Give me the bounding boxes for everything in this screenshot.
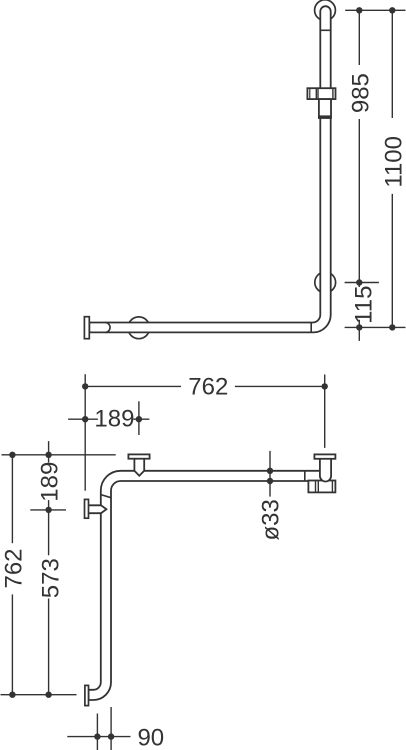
dim line 189v lower / 573 upper bbox=[48, 500, 50, 555]
tick at 985 bottom bbox=[345, 282, 379, 284]
dot dia33 top bbox=[267, 468, 273, 474]
svg-text:189: 189 bbox=[94, 406, 134, 433]
dot 90 right bbox=[108, 733, 114, 739]
dim line 115 lower bbox=[358, 320, 360, 328]
dim line 115 upper bbox=[358, 283, 360, 288]
diagonal seam below plan corner bbox=[101, 495, 111, 498]
L-shaped tube outline (front view) bbox=[89, 6, 330, 332]
svg-text:762: 762 bbox=[188, 373, 228, 400]
dim line 573 lower bbox=[48, 599, 50, 695]
top rosette circle bbox=[315, 0, 336, 21]
seam on horizontal tube near corner bbox=[310, 323, 312, 333]
block inner line a bbox=[315, 481, 317, 493]
dot 1100 top bbox=[389, 7, 395, 13]
left T bracket stem bbox=[134, 459, 144, 476]
dot 573 bottom bbox=[45, 692, 51, 698]
svg-text:573: 573 bbox=[37, 558, 64, 598]
shower slider body bbox=[307, 88, 335, 99]
bottom ext line plan bbox=[1, 694, 77, 696]
seam near right end of plan tube bbox=[304, 471, 306, 481]
dot 985 top bbox=[356, 7, 362, 13]
dot 115 bottom bbox=[356, 324, 362, 330]
dim line 762 top right seg bbox=[235, 385, 325, 387]
ext line top right bbox=[345, 9, 405, 11]
right bracket cap bbox=[314, 454, 335, 458]
dim line 189h left seg bbox=[68, 418, 98, 420]
rounded cap arc near flange bbox=[105, 323, 110, 333]
svg-text:ø33: ø33 bbox=[258, 499, 285, 540]
ext line 90 right bbox=[110, 707, 112, 750]
dim line 189h right seg bbox=[133, 418, 149, 420]
side bracket flange bbox=[85, 499, 89, 518]
slider inner line a bbox=[309, 88, 311, 99]
svg-text:1100: 1100 bbox=[380, 136, 406, 188]
dot 90 left bbox=[94, 733, 100, 739]
ext line bottom right bbox=[345, 326, 406, 328]
block inner line c bbox=[331, 481, 333, 493]
dot 762 right bbox=[322, 383, 328, 389]
PLAN DIMENSIONS bbox=[1, 374, 325, 750]
svg-text:985: 985 bbox=[348, 73, 375, 113]
ext line x138.9 bbox=[138, 401, 140, 435]
dim line 985 lower bbox=[358, 119, 360, 283]
dot 1100 bottom bbox=[389, 324, 395, 330]
dot 762v bottom bbox=[9, 692, 15, 698]
wall flange front view bbox=[84, 317, 89, 339]
svg-text:115: 115 bbox=[350, 286, 377, 324]
tick at 189v bottom bbox=[30, 509, 66, 511]
ext line left x85 bbox=[84, 374, 86, 491]
dim line 762v upper bbox=[11, 455, 13, 543]
wall bracket circle on vertical bar bbox=[315, 272, 336, 293]
dot 762v top bbox=[9, 452, 15, 458]
rail stem and tube cross-section bbox=[320, 459, 331, 482]
slider block top view bbox=[308, 481, 335, 493]
svg-text:762: 762 bbox=[0, 548, 27, 588]
FRONT DIMENSIONS bbox=[345, 10, 406, 341]
dot 762 left bbox=[82, 383, 88, 389]
slider inner line d bbox=[332, 88, 334, 99]
dot 189v bottom bbox=[45, 507, 51, 513]
ext line right x324 bbox=[324, 375, 326, 448]
dot 189h left bbox=[82, 416, 88, 422]
dim line 762v lower bbox=[11, 594, 13, 694]
slider inner line b bbox=[315, 88, 317, 99]
dim line 1100 lower bbox=[391, 194, 393, 328]
dot 189v top bbox=[45, 452, 51, 458]
slider inner line c bbox=[317, 88, 319, 99]
dim line 985 upper bbox=[358, 10, 360, 65]
dot dia33 bottom bbox=[267, 478, 273, 484]
dot 985 bottom bbox=[356, 279, 362, 285]
side bracket stem bbox=[89, 505, 107, 513]
bottom flange bbox=[85, 685, 89, 705]
dim line 189v stub and upper bbox=[48, 441, 50, 462]
top ext line plan bbox=[2, 454, 116, 456]
wall bracket circle on horizontal bar bbox=[128, 317, 150, 339]
stub below 115 bbox=[358, 327, 360, 341]
dim line 762 top left seg bbox=[85, 385, 181, 387]
plan tube outline bbox=[89, 471, 327, 700]
dia33 dim line bbox=[269, 451, 271, 497]
dim line 90 bbox=[67, 736, 130, 738]
joint line under rosette bbox=[320, 29, 330, 31]
slider stem bbox=[319, 99, 331, 118]
left T bracket cap bbox=[128, 454, 149, 458]
block inner line b bbox=[317, 481, 319, 493]
ext line 90 left bbox=[96, 714, 98, 750]
svg-text:90: 90 bbox=[137, 725, 164, 750]
dim line 1100 upper bbox=[391, 10, 393, 118]
dot 189h right bbox=[136, 416, 142, 422]
svg-text:189: 189 bbox=[37, 462, 64, 502]
slider stem thick bottom bbox=[319, 115, 331, 118]
